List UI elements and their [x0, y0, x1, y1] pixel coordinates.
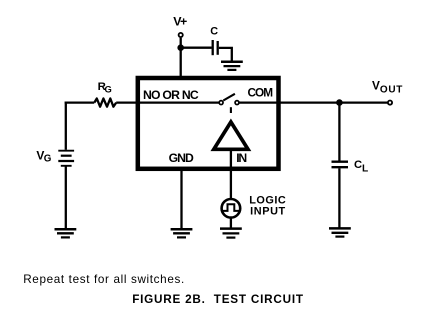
driver triangle	[214, 122, 248, 149]
terminal V+	[179, 33, 183, 37]
svg-text:C: C	[210, 26, 218, 38]
svg-text:COM: COM	[248, 86, 274, 100]
pulse waveform symbol	[222, 204, 239, 211]
label IN	[236, 151, 247, 165]
switch pole circle	[219, 101, 223, 105]
svg-text:V+: V+	[173, 14, 187, 28]
wire left rail to resistor	[65, 101, 95, 103]
logic input source circle	[222, 199, 241, 218]
label GND	[169, 151, 194, 165]
wire GND pin to ground	[180, 169, 182, 229]
ground (left, at VG)	[55, 229, 77, 237]
svg-text:IN: IN	[236, 151, 247, 165]
DUT switch package box	[138, 78, 279, 169]
label VG	[36, 148, 51, 164]
dash switch to driver	[230, 107, 232, 113]
wire logic source to ground	[230, 218, 232, 228]
label COM	[248, 86, 274, 100]
figure caption	[132, 293, 304, 306]
ground (logic input)	[220, 229, 242, 238]
svg-text:Repeat test for all switches.: Repeat test for all switches.	[23, 273, 184, 286]
label VOUT	[372, 79, 402, 96]
switch arm	[223, 94, 235, 101]
svg-text:INPUT: INPUT	[250, 205, 285, 217]
label LOGIC INPUT	[249, 194, 286, 217]
svg-text:G: G	[44, 154, 52, 165]
wire V+ to box	[180, 38, 182, 78]
wire resistor to switch pole	[116, 101, 219, 103]
label CL	[354, 159, 368, 175]
battery VG	[58, 151, 74, 166]
junction dot V+	[177, 44, 184, 51]
svg-text:OUT: OUT	[380, 85, 402, 96]
ground (top, at C)	[221, 62, 243, 70]
switch throw circle	[235, 101, 239, 105]
wire C to ground	[219, 48, 232, 61]
label NO OR NC	[143, 88, 199, 102]
junction dot VOUT	[336, 99, 343, 106]
svg-text:L: L	[362, 164, 368, 175]
wire dot to capacitor C	[181, 47, 212, 49]
terminal VOUT	[388, 101, 392, 105]
capacitor C	[213, 40, 218, 55]
label RG	[98, 81, 112, 94]
label C	[210, 26, 218, 38]
wire IN pin	[230, 149, 232, 198]
svg-text:NO OR NC: NO OR NC	[143, 88, 199, 102]
ground (GND pin)	[171, 229, 193, 237]
capacitor CL	[332, 162, 349, 168]
resistor RG	[94, 99, 116, 107]
svg-text:V: V	[372, 79, 380, 93]
label V+	[173, 14, 187, 28]
svg-text:G: G	[105, 83, 112, 94]
wire CL to ground	[338, 168, 340, 228]
svg-text:FIGURE 2B. TEST CIRCUIT: FIGURE 2B. TEST CIRCUIT	[132, 293, 304, 306]
wire battery to ground	[65, 167, 67, 229]
note text	[23, 273, 184, 286]
svg-text:C: C	[354, 159, 362, 171]
ground (right, at CL)	[329, 228, 351, 236]
wire rail corner down to battery VG	[65, 102, 67, 150]
wire VOUT to CL	[338, 103, 340, 161]
svg-text:GND: GND	[169, 151, 194, 165]
wire COM rail to VOUT	[239, 101, 388, 103]
